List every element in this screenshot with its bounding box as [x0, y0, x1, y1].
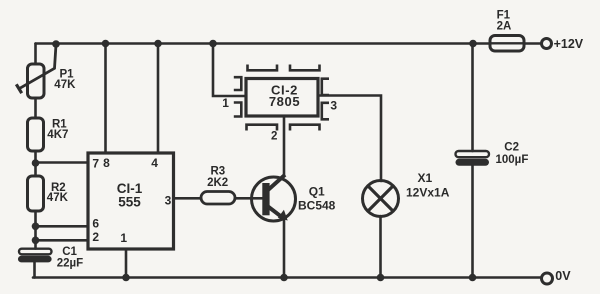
svg-text:47K: 47K	[54, 79, 76, 91]
svg-text:6: 6	[92, 217, 99, 231]
svg-text:2A: 2A	[497, 20, 512, 32]
svg-text:Q1: Q1	[309, 185, 325, 199]
svg-text:8: 8	[103, 156, 110, 170]
svg-text:R3: R3	[211, 166, 226, 178]
svg-text:BC548: BC548	[298, 198, 336, 212]
svg-text:555: 555	[118, 194, 141, 209]
svg-text:47K: 47K	[47, 192, 69, 204]
svg-text:22µF: 22µF	[57, 258, 83, 270]
svg-text:2: 2	[271, 131, 277, 143]
svg-text:3: 3	[330, 98, 337, 112]
svg-text:X1: X1	[418, 171, 433, 185]
svg-text:100µF: 100µF	[496, 154, 529, 166]
svg-text:C1: C1	[62, 246, 77, 258]
svg-text:2K2: 2K2	[207, 177, 228, 189]
svg-text:4K7: 4K7	[47, 129, 68, 141]
svg-text:1: 1	[222, 96, 229, 110]
svg-text:7: 7	[92, 157, 99, 171]
svg-text:+12V: +12V	[554, 37, 584, 51]
svg-text:4: 4	[151, 156, 158, 170]
svg-text:C2: C2	[504, 141, 519, 153]
svg-text:12Vx1A: 12Vx1A	[406, 185, 450, 199]
svg-text:3: 3	[165, 194, 172, 208]
svg-text:1: 1	[120, 231, 127, 245]
svg-text:2: 2	[92, 230, 99, 244]
svg-text:7805: 7805	[269, 94, 300, 109]
svg-text:0V: 0V	[555, 269, 571, 283]
